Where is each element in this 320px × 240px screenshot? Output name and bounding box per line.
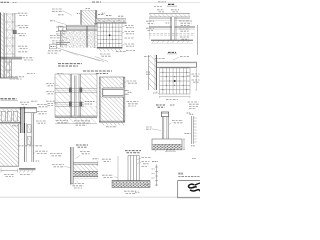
notes heading xyxy=(178,172,183,174)
detail J2 title xyxy=(125,150,141,152)
detail C dim texts above xyxy=(98,14,104,16)
detail G left-bottom mark xyxy=(153,92,157,94)
detail B top dimension tick xyxy=(86,8,91,10)
detail E long right title xyxy=(83,70,112,72)
detail C top stipple band xyxy=(96,19,126,23)
detail F bottom dim text xyxy=(106,126,117,128)
detail G center dot xyxy=(174,80,176,82)
detail A X-braces xyxy=(7,14,13,22)
detail H mid label row xyxy=(18,145,42,147)
detail G title mark xyxy=(168,51,176,53)
detail A lower wall xyxy=(9,60,11,79)
detail E band 2 xyxy=(55,101,97,103)
detail H bottom band end xyxy=(19,167,36,169)
detail H dark post xyxy=(20,107,22,133)
detail E top labels xyxy=(57,73,64,75)
detail B leader into stone xyxy=(95,57,108,62)
detail G junction dots xyxy=(162,72,163,73)
detail G top-right label xyxy=(180,55,189,57)
detail E post cavity xyxy=(70,74,80,117)
detail B stone wall xyxy=(61,31,98,48)
detail D stem verticals xyxy=(169,17,171,40)
detail H top band lines xyxy=(0,106,37,108)
detail D top labels xyxy=(157,9,164,11)
detail D mid band xyxy=(149,25,195,27)
detail B anchor rod xyxy=(85,26,87,47)
detail H studs xyxy=(1,112,5,122)
detail E bottom labels xyxy=(56,120,68,122)
detail G left hatched strip xyxy=(149,55,157,90)
detail E cavity edge lines xyxy=(69,74,71,117)
detail F hatched body xyxy=(99,77,125,122)
detail I small mark xyxy=(187,112,191,114)
detail G right dim line xyxy=(195,62,197,90)
detail K small title xyxy=(166,149,175,151)
detail E main body hatch xyxy=(55,74,97,117)
detail K left small text xyxy=(152,161,158,163)
right narrow wall strip xyxy=(191,116,193,144)
detail B beam lines xyxy=(66,24,97,26)
detail J1 dark stipple band xyxy=(73,172,98,177)
detail J1 left label2 xyxy=(52,164,64,166)
detail I cap xyxy=(161,112,168,117)
detail J2 left label2 xyxy=(102,174,113,176)
detail E left labels xyxy=(46,83,54,85)
detail C grid xyxy=(97,23,122,48)
detail D center small marks xyxy=(166,22,170,24)
detail D ground line xyxy=(151,39,193,41)
detail C left dim line xyxy=(94,23,96,48)
sheet top border line xyxy=(0,2,200,4)
detail G grid xyxy=(160,68,191,94)
detail F bottom edge xyxy=(99,120,125,122)
detail H bottom-left dim xyxy=(1,170,18,172)
detail A horizontal rungs xyxy=(5,13,15,15)
detail H stud band infill xyxy=(0,109,21,122)
detail D slab hatched band xyxy=(149,14,190,17)
right edge small mark xyxy=(192,158,196,160)
detail J2 bottom labels xyxy=(124,190,136,192)
detail I stem label xyxy=(172,120,183,122)
detail I title xyxy=(156,104,165,106)
detail C right labels xyxy=(125,25,134,27)
detail J2 thin vertical xyxy=(117,156,119,186)
detail B boxed label xyxy=(50,44,57,49)
detail J1 left label1 xyxy=(50,153,62,155)
detail G top beam xyxy=(157,61,197,63)
detail B hatched block xyxy=(81,10,97,25)
detail J1 bottom label xyxy=(71,183,84,185)
detail A hatched left strip xyxy=(0,13,4,79)
detail G right labels xyxy=(192,73,200,75)
detail H right labels xyxy=(37,104,48,106)
detail B side tick texts xyxy=(77,13,80,15)
detail I footing under ticks xyxy=(155,150,156,152)
detail B left labels xyxy=(52,8,62,10)
detail H vertical band xyxy=(24,123,26,162)
detail D title mark xyxy=(168,3,175,5)
detail J1 top-right label xyxy=(80,151,90,153)
detail E band 1 xyxy=(55,87,97,89)
detail A wall vertical lines xyxy=(4,13,6,78)
detail I right dim xyxy=(183,139,185,150)
detail G label above beam xyxy=(155,58,165,60)
detail D left edge faint xyxy=(148,17,150,40)
detail B bottom-left labels xyxy=(48,50,61,52)
detail J1 title xyxy=(76,144,88,146)
detail G bottom dim xyxy=(160,96,191,98)
detail H top labels xyxy=(20,101,29,103)
detail J2 right labels xyxy=(142,157,151,159)
detail A ledger block xyxy=(13,30,16,33)
detail H bottom dim text xyxy=(20,174,31,176)
detail J1 dim xyxy=(93,158,99,160)
detail A leader lines xyxy=(15,13,17,15)
detail A right labels xyxy=(18,12,27,14)
detail C bottom diagonal ticks xyxy=(99,49,101,52)
notes bullet line xyxy=(178,176,199,178)
detail I stem xyxy=(161,117,163,139)
detail B left post xyxy=(58,26,63,31)
detail A floor label xyxy=(23,57,34,59)
detail J2 rebar bundle xyxy=(127,156,129,182)
detail I footing xyxy=(152,139,182,150)
stamp box xyxy=(178,181,200,198)
detail D right labels xyxy=(179,20,192,22)
detail D left labels xyxy=(146,20,154,22)
detail I left label xyxy=(146,126,152,128)
right sheet inner border segment xyxy=(197,25,199,55)
detail E bottom double line xyxy=(55,115,97,117)
header label top-right xyxy=(158,1,166,3)
detail H hatch region xyxy=(0,124,19,166)
detail C grid center dot xyxy=(109,34,111,36)
detail A floor double line xyxy=(0,56,22,58)
detail E title rows xyxy=(58,63,82,65)
detail I top-right text block xyxy=(188,101,199,103)
detail J1 ledger lines xyxy=(73,162,98,164)
detail J2 left label1 xyxy=(102,158,111,160)
detail G left mid label xyxy=(146,71,150,73)
header file label top-left xyxy=(1,1,10,3)
detail C bottom edge xyxy=(97,47,123,49)
detail C bottom labels xyxy=(100,53,111,55)
detail J2 dark stipple band xyxy=(112,182,150,188)
detail F beam pocket xyxy=(103,88,124,97)
detail E footing hatch xyxy=(55,118,97,124)
detail H right label2 xyxy=(36,150,48,152)
detail E center post bar xyxy=(74,76,76,116)
detail B stone bottom boundary xyxy=(56,48,104,62)
detail D stem white core xyxy=(172,17,174,40)
detail A bottom labels xyxy=(27,73,35,75)
detail C grid junction dots xyxy=(100,27,120,44)
detail H step right xyxy=(36,107,38,112)
detail E inner label box xyxy=(84,100,97,107)
signature scribble xyxy=(189,184,196,188)
detail J1 wall verticals xyxy=(69,147,71,185)
sheet background xyxy=(0,0,200,200)
detail H dim mark xyxy=(12,125,18,127)
detail A base lines xyxy=(0,76,18,78)
detail K vertical dim bar xyxy=(156,165,158,187)
detail B dark ledge xyxy=(56,42,70,44)
detail F right labels xyxy=(127,80,137,82)
detail J2 footing lines xyxy=(112,179,150,181)
detail J1 hatch band xyxy=(73,165,98,172)
header label top-middle xyxy=(92,1,101,3)
detail G far-left label xyxy=(144,56,150,58)
sheet bottom border line xyxy=(0,196,200,198)
stray mark bottom middle xyxy=(135,191,140,193)
detail H title xyxy=(1,98,17,100)
detail D lower dashed lines xyxy=(149,34,195,36)
detail F right ticks xyxy=(125,90,128,92)
